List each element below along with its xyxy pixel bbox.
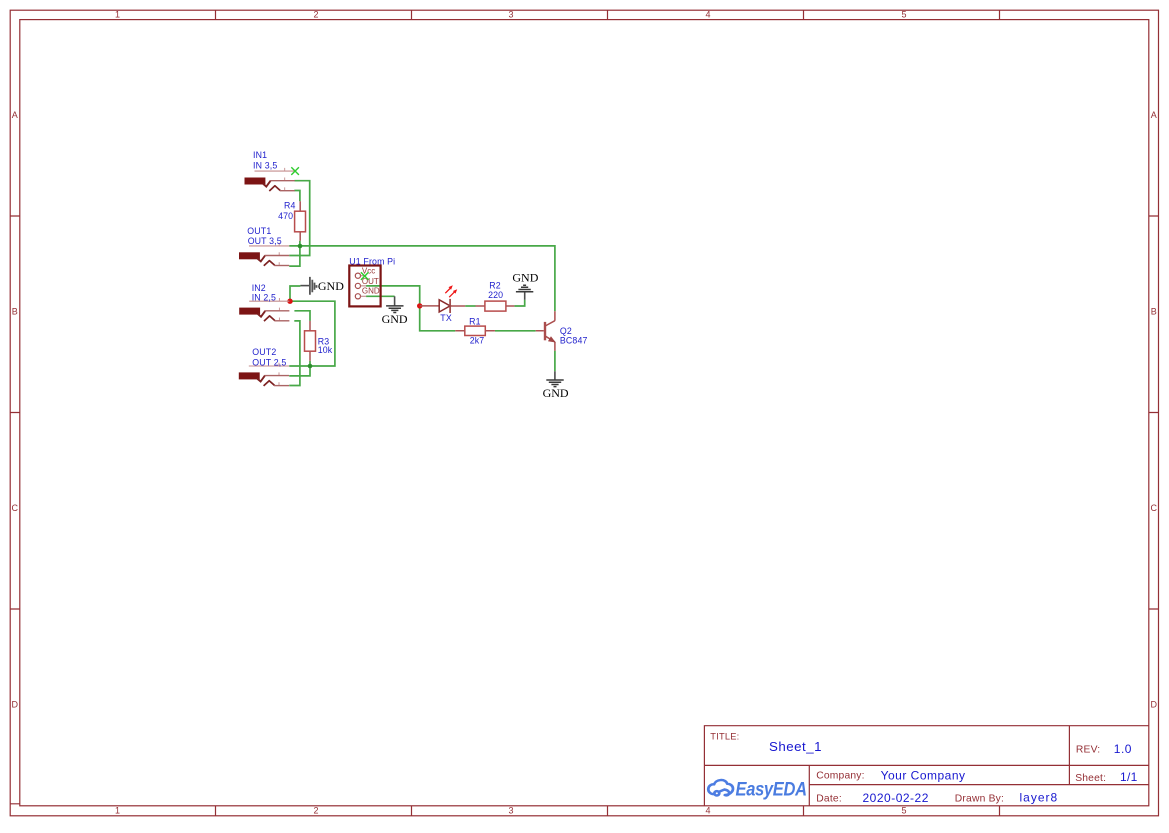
svg-text:A: A [1151,110,1157,120]
svg-text:B: B [12,306,18,316]
svg-text:Company:: Company: [816,770,865,781]
svg-text:A: A [12,110,18,120]
svg-text:470: 470 [278,211,293,221]
svg-text:D: D [1151,699,1158,709]
svg-text:IN 3,5: IN 3,5 [253,161,277,171]
svg-text:Your Company: Your Company [881,769,966,783]
svg-text:BC847: BC847 [560,336,588,346]
svg-text:OUT 3,5: OUT 3,5 [248,236,282,246]
svg-text:Vcc: Vcc [362,266,375,275]
svg-text:OUT1: OUT1 [247,226,271,236]
svg-text:2020-02-22: 2020-02-22 [863,791,929,805]
svg-text:1.0: 1.0 [1114,742,1132,756]
svg-text:OUT: OUT [362,277,379,286]
svg-text:2: 2 [313,10,318,20]
svg-text:1: 1 [115,10,120,20]
svg-text:3: 3 [508,806,513,816]
svg-text:Date:: Date: [816,793,842,804]
svg-text:Q2: Q2 [560,326,572,336]
svg-text:4: 4 [705,10,710,20]
svg-text:OUT 2,5: OUT 2,5 [252,357,286,367]
svg-text:Sheet_1: Sheet_1 [769,739,822,754]
svg-text:10k: 10k [318,345,333,355]
svg-text:C: C [12,503,19,513]
svg-text:D: D [12,699,19,709]
svg-text:OUT2: OUT2 [252,347,276,357]
svg-text:R1: R1 [469,317,481,327]
svg-text:Sheet:: Sheet: [1075,773,1106,784]
svg-text:5: 5 [901,10,906,20]
svg-text:GND: GND [543,386,569,400]
svg-text:GND: GND [512,270,538,284]
svg-text:GND: GND [382,312,408,326]
svg-text:4: 4 [705,806,710,816]
svg-text:5: 5 [901,806,906,816]
svg-text:C: C [1151,503,1158,513]
svg-text:1: 1 [115,806,120,816]
svg-text:IN1: IN1 [253,150,267,160]
svg-text:3: 3 [508,10,513,20]
svg-text:Drawn By:: Drawn By: [955,793,1004,804]
svg-text:TX: TX [440,313,452,323]
svg-text:1/1: 1/1 [1120,770,1138,784]
svg-text:EasyEDA: EasyEDA [736,778,807,800]
svg-text:2: 2 [313,806,318,816]
svg-text:220: 220 [488,290,503,300]
svg-text:layer8: layer8 [1020,791,1059,805]
svg-text:U1 From Pi: U1 From Pi [349,256,395,266]
svg-text:IN 2,5: IN 2,5 [252,292,276,302]
svg-text:GND: GND [318,279,344,293]
svg-text:2k7: 2k7 [470,335,485,345]
svg-text:R4: R4 [284,201,296,211]
svg-text:B: B [1151,306,1157,316]
svg-text:GND: GND [362,287,380,296]
svg-text:TITLE:: TITLE: [710,732,739,742]
svg-text:REV:: REV: [1076,744,1100,755]
